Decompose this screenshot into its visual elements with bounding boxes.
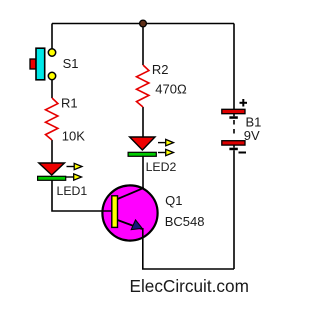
svg-text:9V: 9V — [244, 128, 260, 143]
svg-text:R1: R1 — [61, 96, 78, 111]
svg-text:470Ω: 470Ω — [155, 82, 187, 97]
svg-text:S1: S1 — [63, 56, 79, 71]
svg-text:Q1: Q1 — [165, 193, 182, 208]
svg-text:ElecCircuit.com: ElecCircuit.com — [130, 276, 249, 296]
svg-text:LED1: LED1 — [57, 184, 88, 198]
svg-text:LED2: LED2 — [146, 160, 177, 174]
svg-text:BC548: BC548 — [165, 214, 205, 229]
svg-text:R2: R2 — [152, 62, 169, 77]
svg-text:10K: 10K — [62, 129, 85, 144]
